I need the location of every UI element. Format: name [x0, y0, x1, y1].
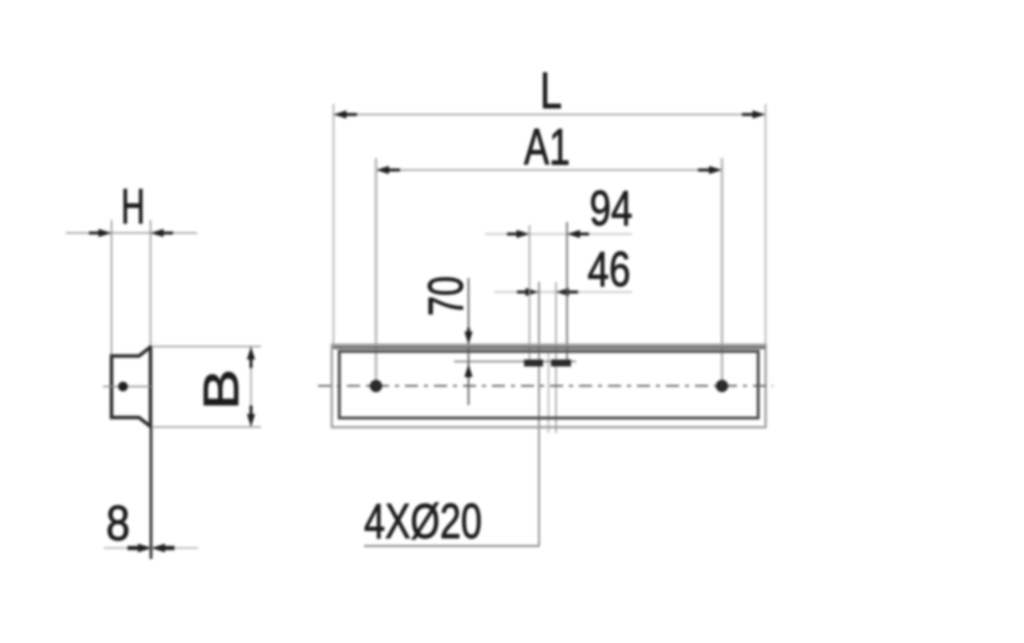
slot bottom mark right — [551, 360, 571, 367]
extension line B top — [153, 346, 261, 348]
svg-text:70: 70 — [420, 276, 474, 316]
svg-text:B: B — [195, 369, 249, 410]
label A1 — [524, 119, 570, 176]
svg-text:8: 8 — [106, 497, 130, 551]
extension line L left — [333, 104, 335, 344]
label 4X020 — [364, 495, 482, 549]
dimension line 46 — [494, 288, 632, 296]
plate inner outline — [339, 351, 758, 418]
extension line L right — [765, 104, 767, 344]
svg-text:H: H — [121, 180, 145, 234]
extension line 94 right — [566, 222, 568, 363]
extension line 46 right — [555, 282, 557, 433]
svg-text:94: 94 — [590, 182, 633, 236]
dimension line H — [66, 229, 197, 237]
plate outer outline — [332, 345, 766, 427]
hole centerline in profile — [103, 386, 151, 388]
profile outline (side view of bracket) — [112, 346, 151, 428]
extension line below profile (to dim 8) — [150, 427, 153, 560]
extension line B bottom — [153, 426, 261, 428]
hole right — [716, 380, 728, 392]
extension line right of H — [150, 220, 152, 347]
extension line A1 right — [721, 158, 723, 381]
extension line 46 left / leader riser — [538, 282, 540, 546]
dimension line A1 — [376, 166, 722, 174]
dashed centerline — [318, 385, 773, 387]
label 46 — [588, 243, 631, 297]
leader line 4X020 — [364, 545, 540, 547]
extension line 94 left — [529, 225, 531, 363]
extension line left of H — [111, 220, 113, 356]
label L — [540, 62, 562, 119]
plate top edge band — [333, 346, 765, 349]
svg-text:A1: A1 — [524, 119, 570, 176]
slot reference line — [454, 361, 576, 363]
dimension line 70 — [464, 278, 472, 405]
svg-text:L: L — [540, 62, 562, 119]
hole dot in profile — [118, 382, 128, 392]
slot edge line — [548, 352, 550, 433]
label 94 — [590, 182, 633, 236]
slot bottom mark left — [524, 360, 543, 367]
dimension line L — [334, 110, 766, 118]
svg-text:4XØ20: 4XØ20 — [364, 495, 482, 549]
label 8 — [106, 497, 130, 551]
label 70 (rotated) — [420, 276, 474, 316]
label B (rotated) — [195, 369, 249, 410]
hole left — [370, 380, 382, 392]
svg-text:46: 46 — [588, 243, 631, 297]
extension line A1 left — [375, 158, 377, 381]
dimension line 8 — [104, 544, 198, 553]
dimension line B — [247, 347, 255, 428]
label H — [121, 180, 145, 234]
dimension line 94 — [485, 230, 632, 238]
